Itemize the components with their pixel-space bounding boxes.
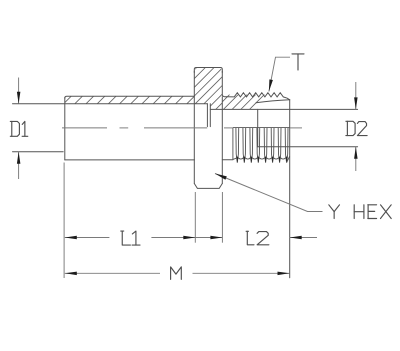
label T leader with arrow — [269, 57, 290, 91]
hex left side edge — [193, 71, 195, 184]
dimension L1 — [65, 237, 110, 239]
wire: tube OD top line — [65, 96, 195, 98]
label Y HEX leader with arrow — [215, 174, 323, 212]
dimension M — [65, 272, 160, 274]
label L2 — [246, 231, 269, 245]
hatch: thread/neck section — [197, 93, 292, 110]
hex bottom edge with chamfers — [194, 184, 222, 189]
bore D2 top line + D2 upper extension line — [210, 108, 357, 110]
label M — [171, 267, 182, 280]
bore step face (counterbore shoulder) — [206, 104, 208, 127]
wire: tube left end face — [64, 97, 66, 160]
bore D2 bottom line + D2 lower extension line — [258, 146, 358, 148]
label L1 — [121, 231, 140, 245]
wire: tube bottom line — [65, 159, 195, 161]
hex flat: top edge — [194, 68, 222, 73]
right end face + extension line to L2/M dims — [289, 100, 291, 278]
thread flanks (external bottom view) — [233, 128, 290, 164]
dimension D2 leader/arrows — [355, 82, 357, 109]
thread T: crest zigzag (sectioned top) — [226, 93, 290, 100]
dimension L2 — [195, 237, 222, 239]
label Y HEX — [329, 205, 391, 219]
bore end face inside part — [257, 109, 259, 146]
wire: bore D1 top line + D1 upper extension line — [13, 103, 208, 105]
wire: D1 lower extension line — [13, 151, 64, 153]
label D1 — [10, 121, 28, 136]
dimension D1 leader/arrows — [18, 78, 20, 104]
hatch: hex section — [146, 68, 266, 110]
label D2 — [346, 121, 367, 135]
neck silhouette bottom — [222, 159, 233, 161]
label T — [292, 54, 304, 70]
centerline (dash-dot axis) — [62, 127, 107, 129]
hatch: tube wall section — [53, 96, 206, 104]
thread runout chamfer line — [256, 100, 290, 103]
hex right side edge — [222, 71, 226, 97]
extension lines below part — [63, 163, 65, 279]
